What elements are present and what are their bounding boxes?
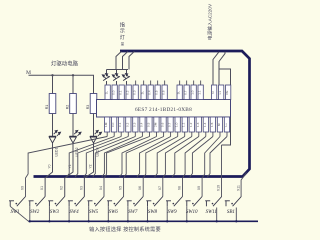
wire input to bus bbox=[137, 137, 171, 178]
wire input to bus bbox=[155, 137, 185, 178]
wire input fan terminal to switch 10 bbox=[202, 137, 220, 197]
node junction SW5 rail bbox=[88, 220, 90, 222]
wire bottom terminal stub bbox=[120, 132, 122, 137]
wire bottom terminal stub bbox=[177, 132, 179, 137]
svg-text:X3: X3 bbox=[79, 186, 83, 190]
wire input fan terminal to switch 7 bbox=[143, 137, 178, 197]
pin top terminal 0.3 bbox=[133, 85, 138, 100]
svg-text:SW11: SW11 bbox=[206, 210, 217, 215]
wire bottom terminal stub bbox=[184, 132, 186, 137]
switch SW10 bbox=[186, 197, 203, 207]
switch SW7 bbox=[127, 197, 144, 207]
switch SW1 bbox=[9, 197, 26, 207]
svg-text:1M: 1M bbox=[104, 122, 108, 127]
svg-text:0.7: 0.7 bbox=[168, 122, 172, 127]
svg-text:SW5: SW5 bbox=[89, 210, 99, 215]
PLC U1 6ES7 214-1BD21-0XB8 bbox=[97, 100, 231, 118]
pin top terminal 3L bbox=[177, 85, 182, 100]
wire LED2 to bus bbox=[65, 143, 73, 197]
pin top terminal PE bbox=[226, 85, 231, 100]
svg-text:0.5: 0.5 bbox=[147, 122, 151, 127]
wire input to bus bbox=[190, 137, 213, 178]
node junction SW6 rail bbox=[107, 220, 109, 222]
node junction SW4 rail bbox=[68, 220, 70, 222]
pin bottom terminal 0.2 bbox=[126, 117, 131, 132]
svg-text:SW6: SW6 bbox=[109, 210, 119, 215]
wire SW11 drop to rail bbox=[216, 208, 218, 222]
svg-text:LED1: LED1 bbox=[54, 148, 58, 157]
wire bottom terminal stub bbox=[212, 132, 214, 137]
node junction SW3 rail bbox=[48, 220, 50, 222]
wire top terminal stub bbox=[150, 81, 152, 86]
svg-text:0.4: 0.4 bbox=[139, 122, 143, 127]
svg-text:X8: X8 bbox=[178, 186, 182, 190]
pin top terminal 1.0 bbox=[191, 85, 196, 100]
wire top terminal stub bbox=[186, 81, 188, 86]
wire bottom terminal stub bbox=[127, 132, 129, 137]
wire LED1 to bus bbox=[45, 143, 52, 197]
svg-text:SW3: SW3 bbox=[50, 210, 60, 215]
svg-text:1.1: 1.1 bbox=[182, 122, 186, 127]
svg-text:0.0: 0.0 bbox=[112, 90, 116, 95]
svg-text:0.7: 0.7 bbox=[184, 90, 188, 95]
svg-text:X6: X6 bbox=[138, 186, 142, 190]
svg-text:SW2: SW2 bbox=[30, 210, 40, 215]
node junction SW2 rail bbox=[29, 220, 31, 222]
svg-text:L1: L1 bbox=[218, 91, 222, 95]
wire lamp riser 1 to bus bbox=[116, 52, 121, 70]
svg-text:1.0: 1.0 bbox=[191, 90, 195, 95]
svg-text:X10: X10 bbox=[217, 185, 221, 191]
wire input fan terminal to switch 1 bbox=[26, 137, 108, 197]
pin bottom terminal 0.5 bbox=[147, 117, 152, 132]
wire common rail bbox=[29, 220, 259, 222]
wire SW5 drop to rail bbox=[88, 206, 90, 221]
svg-text:X2: X2 bbox=[60, 186, 64, 190]
svg-text:SW9: SW9 bbox=[168, 210, 178, 215]
svg-text:Y2: Y2 bbox=[88, 164, 92, 168]
wire input fan terminal to switch 6 bbox=[124, 137, 164, 197]
svg-text:电源输入AC220V: 电源输入AC220V bbox=[206, 3, 213, 40]
svg-text:SW7: SW7 bbox=[128, 210, 138, 215]
svg-text:SW10: SW10 bbox=[186, 210, 198, 215]
pin bottom terminal 0.3 bbox=[133, 117, 138, 132]
svg-text:0.3: 0.3 bbox=[133, 90, 137, 95]
pin bottom terminal 0.7 bbox=[168, 117, 173, 132]
wire L1 to bus bbox=[219, 52, 225, 85]
svg-text:X1: X1 bbox=[40, 186, 44, 190]
switch SB1 bbox=[225, 197, 242, 207]
switch SW3 bbox=[48, 197, 64, 207]
node junction SW7 rail bbox=[127, 220, 129, 222]
switch SW5 bbox=[88, 197, 105, 207]
pin bottom terminal 1M bbox=[105, 117, 110, 132]
wire bottom terminal stub bbox=[163, 132, 165, 137]
svg-text:0.6: 0.6 bbox=[162, 90, 166, 95]
wire bottom terminal stub bbox=[149, 132, 151, 137]
wire bottom terminal stub bbox=[156, 132, 158, 137]
wire top terminal stub bbox=[157, 81, 159, 86]
pin top terminal 0.5 bbox=[155, 85, 160, 100]
node junction SW9 rail bbox=[166, 220, 168, 222]
pin top terminal 0.7 bbox=[184, 85, 189, 100]
svg-text:0.1: 0.1 bbox=[119, 90, 123, 95]
node junction M-R1 bbox=[51, 74, 53, 76]
pin top terminal N bbox=[212, 85, 217, 100]
resistor R2 bbox=[70, 75, 77, 136]
svg-text:0.0: 0.0 bbox=[111, 122, 115, 127]
wire SW4 drop to rail bbox=[68, 206, 70, 221]
svg-text:X11: X11 bbox=[236, 185, 240, 191]
svg-text:0.5: 0.5 bbox=[155, 90, 159, 95]
pin top terminal 1.1 bbox=[198, 85, 203, 100]
pin bottom terminal 2M bbox=[154, 117, 159, 132]
pin bottom terminal 1.1 bbox=[182, 117, 187, 132]
svg-text:1.1: 1.1 bbox=[198, 90, 202, 95]
pin top terminal 0.0 bbox=[112, 85, 117, 100]
node junction M-R2 bbox=[72, 74, 74, 76]
wire input fan terminal to switch 8 bbox=[163, 137, 192, 197]
svg-text:1.0: 1.0 bbox=[175, 122, 179, 127]
pin bottom terminal 0.6 bbox=[161, 117, 166, 132]
svg-text:M: M bbox=[217, 123, 221, 126]
wire bottom terminal stub bbox=[226, 132, 228, 137]
wire input fan terminal to switch 5 bbox=[104, 137, 150, 197]
svg-text:3L: 3L bbox=[177, 91, 181, 95]
wire top terminal stub bbox=[135, 81, 137, 86]
svg-text:X4: X4 bbox=[99, 186, 103, 190]
svg-text:N: N bbox=[211, 91, 215, 93]
switch SW6 bbox=[107, 197, 124, 207]
svg-text:SW8: SW8 bbox=[148, 210, 158, 215]
pin bottom terminal 1.2 bbox=[189, 117, 194, 132]
node junction SW11 rail bbox=[216, 220, 218, 222]
svg-text:6ES7 214-1BD21-0XB8: 6ES7 214-1BD21-0XB8 bbox=[135, 107, 192, 113]
switch SW2 bbox=[29, 197, 45, 207]
wire bottom terminal stub bbox=[170, 132, 172, 137]
svg-text:X7: X7 bbox=[158, 186, 162, 190]
pin bottom terminal 1.0 bbox=[175, 117, 180, 132]
svg-text:Y0: Y0 bbox=[47, 164, 51, 168]
svg-text:SB1: SB1 bbox=[227, 210, 235, 215]
wire input to bus bbox=[93, 137, 136, 178]
pin bottom terminal 0.1 bbox=[119, 117, 124, 132]
svg-text:2L: 2L bbox=[141, 91, 145, 95]
svg-text:R2: R2 bbox=[65, 105, 69, 110]
wire SW1 drop to rail bbox=[10, 206, 28, 221]
wire lamp riser 3 to bus bbox=[129, 52, 134, 70]
lamp HL3 bbox=[122, 70, 130, 85]
wire bottom terminal stub bbox=[134, 132, 136, 137]
wire top terminal stub bbox=[200, 81, 202, 86]
wire bottom terminal stub bbox=[219, 132, 221, 137]
lamp HL1 bbox=[102, 70, 110, 85]
wire L+ branch along PLC edge bbox=[219, 69, 231, 145]
svg-text:0.2: 0.2 bbox=[125, 122, 129, 127]
svg-text:0.2: 0.2 bbox=[126, 90, 130, 95]
svg-text:L+: L+ bbox=[224, 123, 228, 127]
wire SW8 drop to rail bbox=[147, 206, 149, 221]
wire input to bus bbox=[67, 137, 115, 178]
wire lamp riser 2 to bus bbox=[123, 52, 128, 70]
svg-text:1.4: 1.4 bbox=[203, 122, 207, 127]
node junction SW8 rail bbox=[146, 220, 148, 222]
wire bottom terminal stub bbox=[205, 132, 207, 137]
wire input to bus bbox=[84, 137, 129, 178]
pin top terminal 2L bbox=[141, 85, 146, 100]
svg-text:1.2: 1.2 bbox=[189, 122, 193, 127]
pin top terminal 1L bbox=[105, 85, 110, 100]
wire top terminal stub bbox=[164, 81, 166, 86]
wire power bus loop bbox=[34, 51, 250, 177]
wire bottom terminal stub bbox=[141, 132, 143, 137]
wire input to bus bbox=[75, 137, 121, 178]
LED LED2 bbox=[69, 130, 81, 143]
pin top terminal 0.6 bbox=[162, 85, 167, 100]
svg-text:指示灯量: 指示灯量 bbox=[120, 20, 125, 46]
resistor R3 bbox=[90, 94, 97, 137]
wire feed SB1 from bus corner bbox=[241, 173, 246, 197]
pin top terminal L1 bbox=[219, 85, 224, 100]
svg-text:X5: X5 bbox=[119, 186, 123, 190]
svg-text:0.3: 0.3 bbox=[132, 122, 136, 127]
wire bottom terminal stub bbox=[191, 132, 193, 137]
pin top terminal 0.4 bbox=[148, 85, 153, 100]
svg-text:PE: PE bbox=[225, 91, 229, 95]
wire bottom terminal stub bbox=[113, 132, 115, 137]
wire bottom terminal stub bbox=[106, 132, 108, 137]
wire feed switch 11 from power branch bbox=[221, 145, 223, 197]
LED LED1 bbox=[49, 130, 61, 143]
wire bottom terminal stub bbox=[198, 132, 200, 137]
pin bottom terminal 1.3 bbox=[196, 117, 201, 132]
wire SW3 drop to rail bbox=[48, 206, 50, 221]
wire SW7 drop to rail bbox=[127, 206, 129, 221]
svg-text:R3: R3 bbox=[86, 105, 90, 110]
wire top terminal stub bbox=[143, 81, 145, 86]
switch SW9 bbox=[166, 197, 183, 207]
wire top terminal stub bbox=[179, 81, 181, 86]
pin top terminal 0.2 bbox=[126, 85, 131, 100]
pin bottom terminal 0.0 bbox=[112, 117, 117, 132]
pin top terminal 0.1 bbox=[119, 85, 124, 100]
LED LED3 bbox=[90, 130, 102, 143]
svg-text:1.5: 1.5 bbox=[210, 122, 214, 127]
wire SW6 drop to rail bbox=[107, 206, 109, 221]
svg-text:1L: 1L bbox=[105, 91, 109, 95]
wire lamp tie line bbox=[107, 69, 129, 71]
svg-text:R1: R1 bbox=[45, 105, 49, 110]
wire SW9 drop to rail bbox=[166, 206, 168, 221]
wire input fan terminal to switch 9 bbox=[183, 137, 206, 197]
switch SW11 bbox=[205, 197, 222, 207]
wire input to bus bbox=[207, 137, 227, 178]
svg-text:X0: X0 bbox=[21, 186, 25, 190]
wire SB1 drop to rail bbox=[235, 208, 237, 222]
wire M line bbox=[29, 75, 94, 93]
pin bottom terminal L+ bbox=[224, 117, 229, 132]
wire SW10 drop to rail bbox=[186, 206, 188, 221]
pin bottom terminal 0.4 bbox=[140, 117, 145, 132]
svg-text:2M: 2M bbox=[154, 122, 158, 127]
svg-text:1.3: 1.3 bbox=[196, 122, 200, 127]
pin bottom terminal M bbox=[217, 117, 222, 132]
pin bottom terminal 1.5 bbox=[210, 117, 215, 132]
wire LED3 to bus bbox=[84, 143, 93, 197]
svg-text:0.1: 0.1 bbox=[118, 122, 122, 127]
resistor R1 bbox=[49, 75, 56, 136]
wire input to bus bbox=[119, 137, 156, 178]
wire input to bus bbox=[102, 137, 143, 178]
svg-text:灯驱动电路: 灯驱动电路 bbox=[51, 60, 79, 68]
lamp HL2 bbox=[112, 70, 120, 85]
svg-text:SW4: SW4 bbox=[69, 210, 79, 215]
switch SW8 bbox=[146, 197, 163, 207]
svg-text:X9: X9 bbox=[197, 186, 201, 190]
svg-text:0.6: 0.6 bbox=[161, 122, 165, 127]
switch SW4 bbox=[68, 197, 85, 207]
node junction SB1 rail bbox=[235, 220, 237, 222]
wire SW2 drop to rail bbox=[29, 206, 31, 221]
wire top terminal stub bbox=[193, 81, 195, 86]
svg-text:0.4: 0.4 bbox=[148, 90, 152, 95]
svg-text:Y1: Y1 bbox=[68, 164, 72, 168]
node junction SW10 rail bbox=[186, 220, 188, 222]
wire N to bus bbox=[213, 52, 219, 85]
pin bottom terminal 1.4 bbox=[203, 117, 208, 132]
wire input to bus bbox=[172, 137, 199, 178]
svg-text:输入按钮选择 按控制系统需要: 输入按钮选择 按控制系统需要 bbox=[89, 225, 161, 233]
